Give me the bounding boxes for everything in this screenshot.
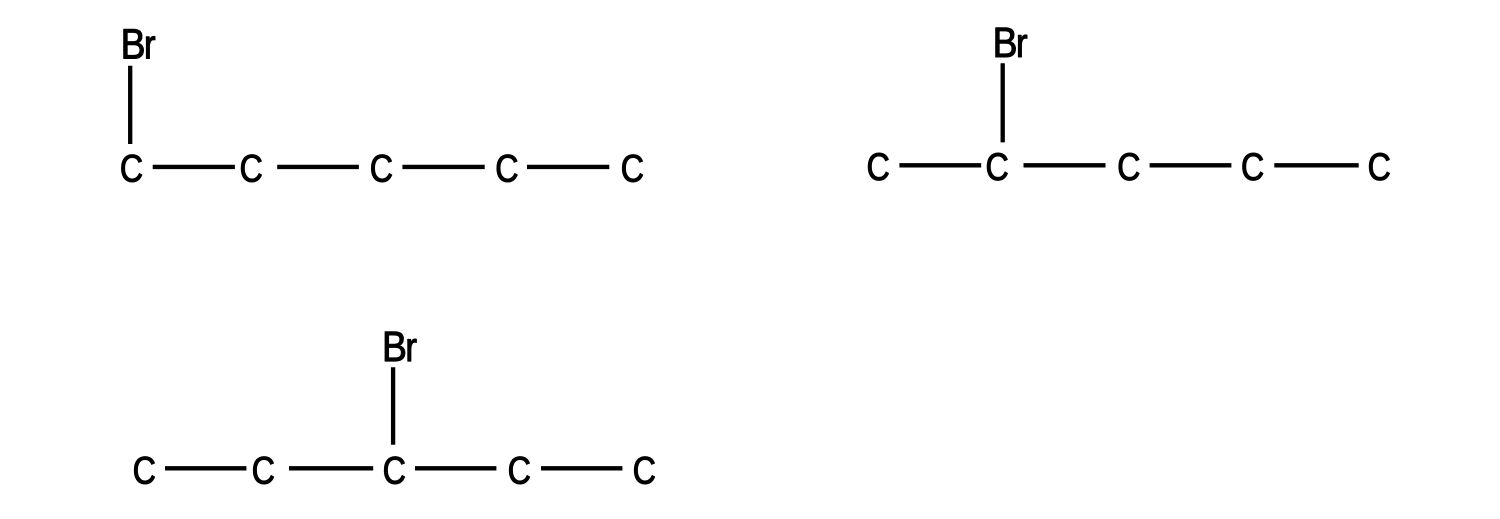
- label Br (structure 1): [124, 29, 155, 58]
- carbon C5 (structure 3): [634, 457, 654, 484]
- carbon C1 (structure 3): [134, 457, 154, 484]
- carbon C5 (structure 2): [1369, 153, 1389, 180]
- C1-C2 bond (structure 3): [165, 466, 246, 470]
- carbon C1 (structure 2): [868, 153, 888, 180]
- C3-C4 bond (structure 2): [1150, 163, 1232, 167]
- C2-Br vertical bond (structure 2): [1001, 63, 1005, 142]
- carbon C5 (structure 1): [622, 155, 642, 182]
- carbon C2 (structure 1): [241, 155, 261, 182]
- C3-C4 bond (structure 3): [415, 466, 496, 470]
- C2-C3 bond (structure 1): [277, 165, 359, 169]
- carbon C4 (structure 2): [1243, 153, 1263, 180]
- C4-C5 bond (structure 3): [541, 466, 622, 470]
- C1-C2 bond (structure 2): [899, 163, 981, 167]
- C4-C5 bond (structure 2): [1274, 163, 1358, 167]
- C4-C5 bond (structure 1): [527, 165, 609, 169]
- C3-Br vertical bond (structure 3): [391, 367, 395, 445]
- label Br (structure 3): [385, 332, 416, 361]
- C2-C3 bond (structure 2): [1024, 163, 1106, 167]
- C3-C4 bond (structure 1): [402, 165, 484, 169]
- carbon C1 (structure 1): [122, 155, 142, 182]
- carbon C2 (structure 3): [253, 457, 273, 484]
- C2-C3 bond (structure 3): [289, 466, 373, 470]
- carbon C2 (structure 2): [987, 153, 1007, 180]
- carbon C3 (structure 2): [1119, 153, 1139, 180]
- C1-C2 bond (structure 1): [153, 165, 235, 169]
- C1-Br vertical bond (structure 1): [128, 66, 132, 144]
- carbon C3 (structure 1): [371, 155, 391, 182]
- carbon C4 (structure 1): [497, 155, 517, 182]
- carbon C3 (structure 3): [384, 457, 404, 484]
- carbon C4 (structure 3): [509, 457, 529, 484]
- label Br (structure 2): [996, 28, 1027, 57]
